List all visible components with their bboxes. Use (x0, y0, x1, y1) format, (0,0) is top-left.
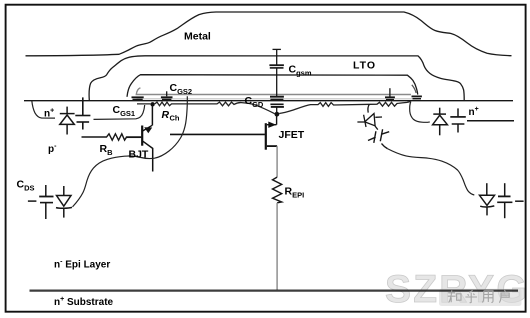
wire metal top outline (26, 12, 512, 56)
svg-text:Ch: Ch (170, 114, 180, 123)
wire left n+ pocket (32, 101, 145, 120)
diode D4 body diode right (480, 183, 495, 215)
capacitor C_DS right (497, 183, 523, 218)
wire polysilicon gate top line (136, 88, 411, 95)
transistor Q1 BJT (126, 105, 153, 172)
watermark zhihu user glyphs (448, 290, 509, 303)
wire LTO outline (127, 75, 418, 97)
wire poly right hook (412, 85, 416, 93)
capacitor gate edge mid-right (385, 88, 395, 99)
resistor R_Ch channel path with zigzags (137, 101, 411, 113)
wire poly bottom faint line (137, 98, 414, 100)
watermark zhihu badge background (439, 289, 522, 306)
capacitor left n+ junction cap (75, 97, 90, 129)
capacitor C_gsm (269, 49, 284, 96)
svg-text:n- Epi Layer: n- Epi Layer (54, 259, 110, 271)
svg-text:BJT: BJT (129, 149, 149, 161)
svg-text:LTO: LTO (353, 60, 376, 72)
wire long curve to bottom right (387, 149, 474, 195)
wire n+ substrate line (30, 290, 519, 292)
resistor R_B (82, 134, 142, 140)
svg-text:Metal: Metal (184, 31, 211, 43)
svg-text:JFET: JFET (279, 129, 305, 141)
wire right n+ pocket bottom (467, 120, 514, 122)
node A source contact dot (150, 102, 154, 106)
watermark SZRYG (385, 268, 529, 311)
svg-text:R: R (162, 109, 170, 121)
capacitor gate edge left (132, 97, 144, 99)
capacitor right n+ junction cap (450, 108, 466, 132)
wire right pocket left bracket (410, 102, 430, 123)
capacitor C_GD (270, 97, 284, 113)
diode D1 left n+ junction (60, 107, 75, 135)
wire main surface line (24, 100, 513, 102)
diode D5 right n+ junction (433, 108, 448, 136)
capacitor gate edge right end (412, 96, 422, 98)
capacitor C_DS (28, 185, 54, 219)
wire long S-curve from C_DS to gate region (73, 96, 188, 207)
wire metal lower boundary (89, 56, 464, 100)
resistor R_EPI (276, 146, 278, 177)
capacitor C_GS2 (161, 91, 173, 99)
diode D3 body diode left (56, 186, 72, 218)
capacitor tilted cap (368, 129, 389, 148)
transistor Q2 JFET (170, 115, 277, 150)
node B JFET drain dot (275, 112, 280, 117)
diode D2 tilted punch-through diode (357, 104, 382, 129)
